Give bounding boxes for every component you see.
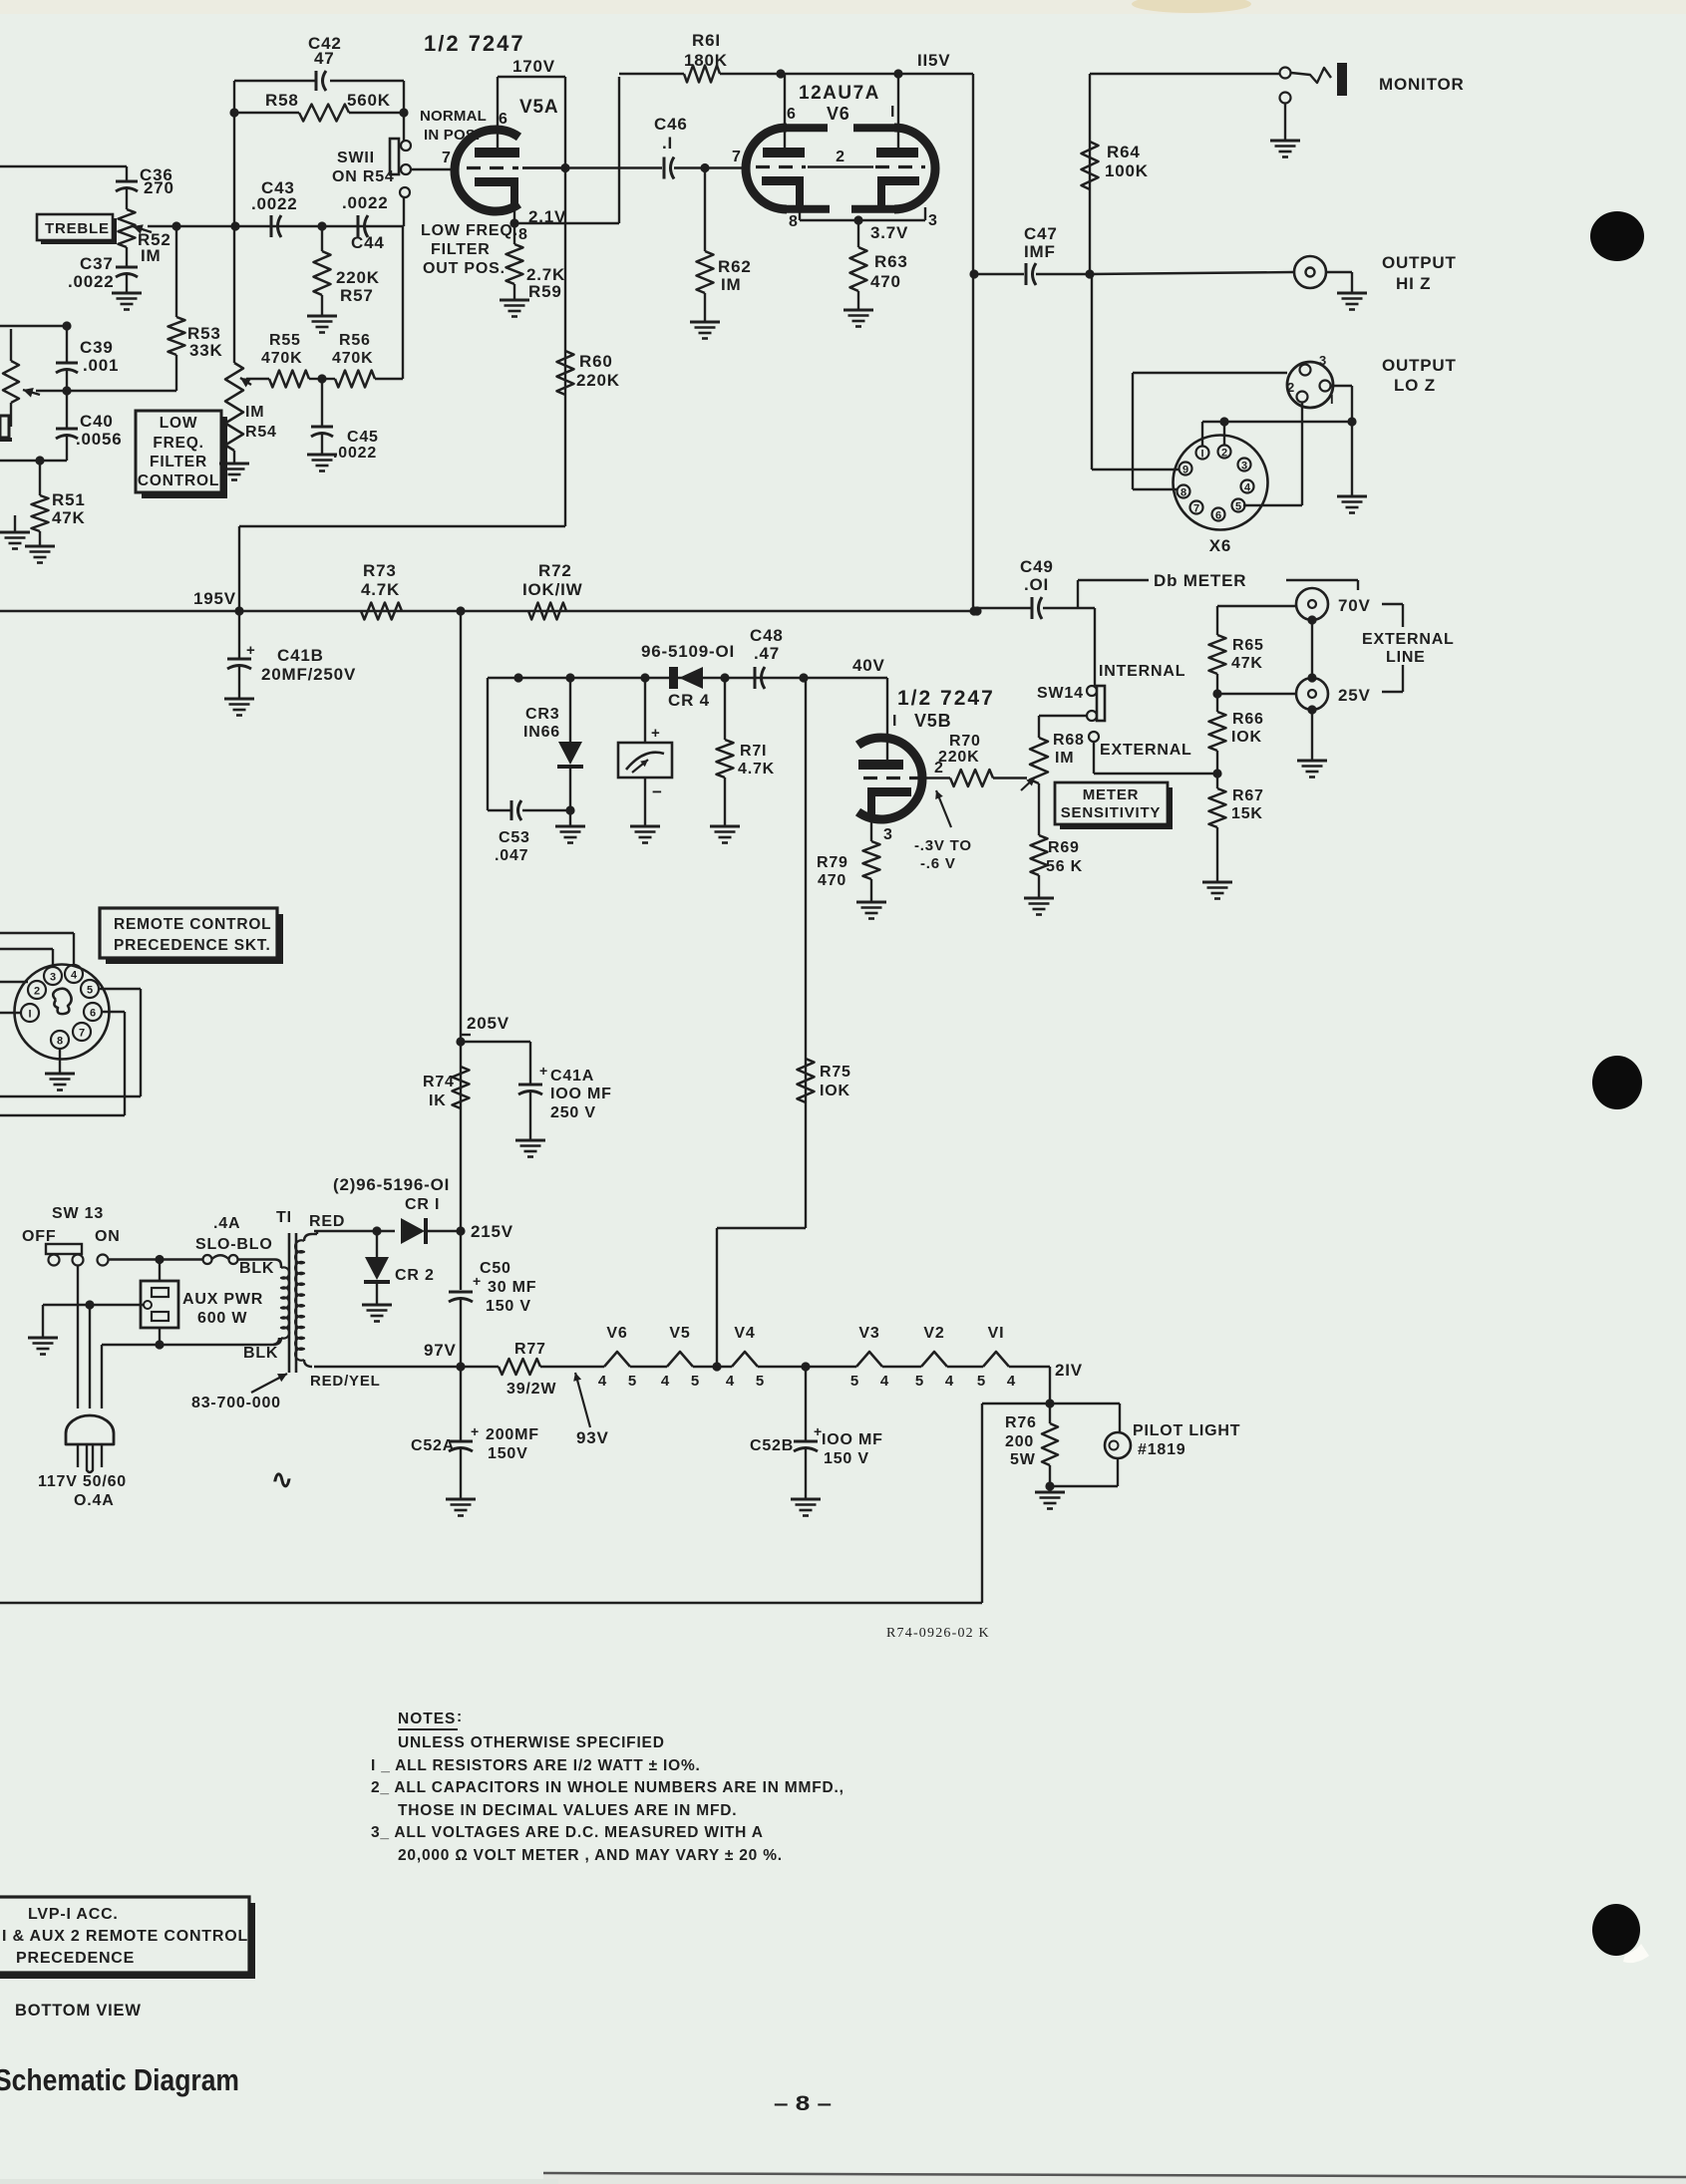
svg-text:8: 8	[57, 1036, 63, 1048]
svg-text:IOO MF: IOO MF	[550, 1086, 612, 1102]
svg-text:IM: IM	[721, 275, 741, 294]
svg-text:93V: 93V	[576, 1428, 609, 1447]
svg-text:6: 6	[499, 111, 508, 128]
svg-text:-.6 V: -.6 V	[920, 855, 956, 872]
svg-text:250 V: 250 V	[550, 1104, 596, 1121]
svg-text:4: 4	[1244, 482, 1251, 494]
svg-text:I: I	[892, 713, 897, 730]
svg-text:200MF: 200MF	[486, 1426, 539, 1443]
svg-text:I: I	[28, 1009, 31, 1021]
svg-text:METER: METER	[1083, 786, 1140, 803]
svg-text:+: +	[814, 1423, 822, 1439]
svg-text:600 W: 600 W	[197, 1310, 247, 1327]
svg-text:25V: 25V	[1338, 686, 1371, 705]
svg-text:33K: 33K	[189, 341, 223, 360]
svg-text:5: 5	[756, 1373, 764, 1390]
svg-text:180K: 180K	[684, 51, 728, 70]
svg-text:3: 3	[1241, 461, 1247, 472]
svg-text:IM: IM	[1055, 750, 1074, 767]
svg-text:150 V: 150 V	[486, 1298, 531, 1315]
svg-text:R72: R72	[538, 561, 572, 580]
svg-text:7: 7	[79, 1028, 85, 1040]
svg-text:TREBLE: TREBLE	[45, 220, 110, 237]
svg-text:2IV: 2IV	[1055, 1361, 1083, 1380]
svg-text:97V: 97V	[424, 1341, 457, 1360]
svg-text:.I: .I	[662, 134, 673, 153]
svg-text:.0022: .0022	[251, 194, 298, 213]
svg-text:SW 13: SW 13	[52, 1205, 104, 1222]
svg-text:EXTERNAL: EXTERNAL	[1362, 631, 1455, 648]
svg-text:OUTPUT: OUTPUT	[1382, 356, 1457, 375]
svg-text:2: 2	[1287, 380, 1294, 395]
svg-text:47K: 47K	[1231, 655, 1263, 672]
svg-text:47: 47	[314, 49, 335, 68]
svg-text:R79: R79	[817, 854, 848, 871]
svg-text:C52B: C52B	[750, 1437, 794, 1454]
svg-text:OUTPUT: OUTPUT	[1382, 253, 1457, 272]
svg-text:220K: 220K	[938, 749, 979, 766]
svg-text:R65: R65	[1232, 637, 1264, 654]
svg-text:V4: V4	[734, 1325, 755, 1342]
svg-text:HI Z: HI Z	[1396, 274, 1431, 293]
svg-text:IOO MF: IOO MF	[822, 1431, 883, 1448]
svg-text:220K: 220K	[336, 268, 380, 287]
svg-text:MONITOR: MONITOR	[1379, 75, 1465, 94]
svg-text:CR 2: CR 2	[395, 1267, 435, 1284]
svg-text:200: 200	[1005, 1433, 1034, 1450]
svg-text:+: +	[651, 725, 660, 742]
svg-text:PRECEDENCE: PRECEDENCE	[16, 1950, 135, 1967]
svg-text:C37: C37	[80, 254, 114, 273]
svg-text:V5B: V5B	[914, 711, 951, 731]
svg-text:IOK: IOK	[820, 1083, 850, 1099]
svg-text:I: I	[890, 104, 895, 121]
svg-text:R55: R55	[269, 332, 301, 349]
svg-text:470: 470	[818, 872, 846, 889]
svg-text:96-5109-OI: 96-5109-OI	[641, 642, 735, 661]
svg-text:R51: R51	[52, 490, 86, 509]
svg-text:3_ ALL VOLTAGES ARE D.C. MEAS: 3_ ALL VOLTAGES ARE D.C. MEASURED WITH A	[371, 1824, 764, 1841]
svg-text:RED: RED	[309, 1213, 345, 1230]
svg-text:560K: 560K	[347, 91, 391, 110]
svg-text:270: 270	[144, 178, 174, 197]
svg-text:5: 5	[691, 1373, 699, 1390]
svg-text:5: 5	[850, 1373, 858, 1390]
svg-text:R57: R57	[340, 286, 374, 305]
svg-text:R76: R76	[1005, 1414, 1037, 1431]
svg-text:3: 3	[883, 826, 893, 843]
svg-text:CR3: CR3	[525, 706, 559, 723]
svg-text:5: 5	[1235, 501, 1241, 513]
svg-text:2: 2	[34, 986, 40, 998]
svg-text:150 V: 150 V	[824, 1450, 869, 1467]
svg-text:195V: 195V	[193, 589, 236, 608]
svg-text:C41B: C41B	[277, 646, 324, 665]
svg-text:R60: R60	[579, 352, 613, 371]
svg-text:IN66: IN66	[523, 724, 560, 741]
svg-text:4: 4	[598, 1373, 607, 1390]
svg-text:7: 7	[442, 150, 452, 166]
svg-text:C47: C47	[1024, 224, 1058, 243]
svg-text:4: 4	[661, 1373, 670, 1390]
svg-text:BLK: BLK	[239, 1260, 274, 1277]
svg-text:20MF/250V: 20MF/250V	[261, 665, 356, 684]
svg-text:R68: R68	[1053, 732, 1085, 749]
svg-text:OUT POS.: OUT POS.	[423, 260, 506, 277]
svg-text:3: 3	[928, 212, 938, 229]
svg-text:100K: 100K	[1105, 161, 1149, 180]
svg-text:3: 3	[1319, 353, 1326, 368]
svg-text:REMOTE CONTROL: REMOTE CONTROL	[114, 916, 271, 933]
svg-text:470K: 470K	[332, 350, 373, 367]
svg-text:IOK: IOK	[1231, 729, 1262, 746]
svg-text:7: 7	[732, 149, 742, 165]
svg-text:2: 2	[836, 149, 845, 165]
svg-text:OFF: OFF	[22, 1228, 56, 1245]
svg-text:8: 8	[789, 213, 799, 230]
svg-text:NORMAL: NORMAL	[420, 108, 487, 125]
svg-text:83-700-000: 83-700-000	[191, 1395, 281, 1411]
svg-text:+: +	[471, 1423, 479, 1439]
svg-text:LINE: LINE	[1386, 649, 1426, 666]
svg-text:I & AUX 2 REMOTE CONTROL: I & AUX 2 REMOTE CONTROL	[2, 1928, 248, 1945]
svg-text:Db METER: Db METER	[1154, 571, 1246, 590]
svg-text:6: 6	[787, 106, 797, 123]
svg-text:R64: R64	[1107, 143, 1141, 161]
svg-text:BOTTOM VIEW: BOTTOM VIEW	[15, 2002, 142, 2020]
svg-text:R56: R56	[339, 332, 371, 349]
svg-text:R66: R66	[1232, 711, 1264, 728]
svg-text:.47: .47	[754, 644, 780, 663]
svg-text:R74-0926-02 K: R74-0926-02 K	[886, 1626, 990, 1641]
svg-text:15K: 15K	[1231, 805, 1263, 822]
svg-text:7: 7	[1193, 503, 1199, 515]
svg-text:VI: VI	[988, 1325, 1005, 1342]
svg-text:.4A: .4A	[213, 1215, 240, 1232]
svg-text:R74: R74	[423, 1074, 455, 1091]
svg-text:R7I: R7I	[740, 743, 767, 760]
svg-text:SW14: SW14	[1037, 685, 1084, 702]
svg-text:40V: 40V	[852, 656, 885, 675]
svg-text:I _ ALL RESISTORS ARE I/2 WAT: I _ ALL RESISTORS ARE I/2 WATT ± IO%.	[371, 1757, 701, 1774]
svg-text:CR 4: CR 4	[668, 691, 710, 710]
svg-text:LOW FREQ.: LOW FREQ.	[421, 222, 518, 239]
svg-text:C49: C49	[1020, 557, 1054, 576]
svg-text:R62: R62	[718, 257, 752, 276]
svg-text:C46: C46	[654, 115, 688, 134]
svg-text:AUX PWR: AUX PWR	[182, 1291, 263, 1308]
svg-text:4: 4	[1007, 1373, 1016, 1390]
svg-text:EXTERNAL: EXTERNAL	[1100, 742, 1192, 759]
svg-text:C40: C40	[80, 412, 114, 431]
svg-text:.0056: .0056	[76, 430, 123, 449]
svg-text:150V: 150V	[488, 1445, 528, 1462]
svg-text:V6: V6	[606, 1325, 627, 1342]
svg-text:+: +	[539, 1063, 547, 1079]
svg-text:IMF: IMF	[1024, 242, 1056, 261]
svg-text:ON R54: ON R54	[332, 168, 395, 185]
svg-text:FREQ.: FREQ.	[153, 435, 203, 452]
svg-text:215V: 215V	[471, 1222, 513, 1241]
svg-text:R6I: R6I	[692, 31, 721, 50]
svg-text:70V: 70V	[1338, 596, 1371, 615]
svg-text:X6: X6	[1209, 536, 1231, 555]
svg-text:UNLESS OTHERWISE SPECIFIED: UNLESS OTHERWISE SPECIFIED	[398, 1734, 665, 1751]
svg-text:5: 5	[915, 1373, 923, 1390]
svg-text:C50: C50	[480, 1260, 511, 1277]
svg-text:I: I	[1200, 449, 1203, 461]
svg-text:39/2W: 39/2W	[506, 1381, 556, 1398]
svg-text:470: 470	[870, 272, 901, 291]
svg-text:3: 3	[50, 972, 56, 984]
svg-text:– 8 –: – 8 –	[774, 2092, 832, 2115]
svg-text:V5: V5	[669, 1325, 690, 1342]
svg-text:(2)96-5196-OI: (2)96-5196-OI	[333, 1175, 450, 1194]
svg-text:O.4A: O.4A	[74, 1492, 115, 1509]
svg-text:R73: R73	[363, 561, 397, 580]
svg-text:FILTER: FILTER	[150, 454, 207, 470]
svg-text:.0022: .0022	[342, 193, 389, 212]
svg-text:12AU7A: 12AU7A	[799, 83, 880, 104]
svg-text:220K: 220K	[576, 371, 620, 390]
svg-text:V5A: V5A	[519, 97, 558, 118]
svg-text:R77: R77	[514, 1341, 546, 1358]
svg-text:170V: 170V	[512, 57, 555, 76]
svg-text:.047: .047	[495, 847, 528, 864]
svg-text:TI: TI	[276, 1209, 292, 1226]
svg-text:PRECEDENCE SKT.: PRECEDENCE SKT.	[114, 937, 271, 954]
svg-text:205V: 205V	[467, 1014, 509, 1033]
svg-text:R70: R70	[949, 733, 981, 750]
svg-text:IK: IK	[429, 1092, 447, 1109]
svg-text:C45: C45	[347, 429, 379, 446]
svg-text:4.7K: 4.7K	[738, 761, 775, 778]
svg-text:470K: 470K	[261, 350, 302, 367]
svg-text:C52A: C52A	[411, 1437, 455, 1454]
svg-text:5: 5	[628, 1373, 636, 1390]
svg-text:CONTROL: CONTROL	[138, 472, 219, 489]
svg-text:47K: 47K	[52, 508, 86, 527]
svg-text:V2: V2	[923, 1325, 944, 1342]
svg-text:C41A: C41A	[550, 1068, 594, 1085]
svg-text:8: 8	[518, 226, 528, 243]
svg-text:-.3V TO: -.3V TO	[914, 837, 972, 854]
svg-text:5W: 5W	[1010, 1451, 1036, 1468]
svg-text:SENSITIVITY: SENSITIVITY	[1061, 804, 1162, 821]
svg-text:2: 2	[1221, 448, 1227, 460]
svg-text:.0022: .0022	[68, 272, 115, 291]
svg-text:C44: C44	[351, 233, 385, 252]
svg-text:4.7K: 4.7K	[361, 580, 400, 599]
svg-text:2_ ALL CAPACITORS IN WHOLE NU: 2_ ALL CAPACITORS IN WHOLE NUMBERS ARE I…	[371, 1779, 844, 1796]
svg-text:R54: R54	[245, 424, 277, 441]
svg-text:−: −	[652, 782, 662, 801]
svg-text:INTERNAL: INTERNAL	[1099, 663, 1185, 680]
svg-text:117V 50/60: 117V 50/60	[38, 1473, 127, 1490]
svg-text:THOSE IN DECIMAL VALUES ARE IN: THOSE IN DECIMAL VALUES ARE IN MFD.	[398, 1802, 737, 1819]
svg-text:NOTES: NOTES	[398, 1711, 456, 1727]
svg-text:3.7V: 3.7V	[870, 223, 908, 242]
svg-text:4: 4	[726, 1373, 735, 1390]
svg-text:C53: C53	[499, 829, 530, 846]
svg-text:PILOT LIGHT: PILOT LIGHT	[1133, 1422, 1240, 1439]
svg-text:R67: R67	[1232, 787, 1264, 804]
svg-text:R63: R63	[874, 252, 908, 271]
svg-text:LVP-I ACC.: LVP-I ACC.	[28, 1906, 119, 1923]
svg-text:∿: ∿	[271, 1464, 293, 1494]
svg-text:1/2 7247: 1/2 7247	[424, 31, 525, 56]
svg-text:56 K: 56 K	[1046, 858, 1083, 875]
svg-text::: :	[457, 1709, 462, 1725]
svg-text:30 MF: 30 MF	[488, 1279, 536, 1296]
svg-text:20,000 Ω VOLT METER , AND MAY: 20,000 Ω VOLT METER , AND MAY VARY ± 20 …	[398, 1847, 783, 1864]
svg-text:R69: R69	[1048, 839, 1080, 856]
svg-text:IOK/IW: IOK/IW	[522, 580, 583, 599]
svg-text:RED/YEL: RED/YEL	[310, 1373, 381, 1390]
svg-text:9: 9	[1182, 465, 1188, 476]
svg-text:5: 5	[977, 1373, 985, 1390]
svg-text:4: 4	[880, 1373, 889, 1390]
svg-text:+: +	[246, 642, 255, 659]
svg-text:.0022: .0022	[333, 445, 377, 462]
svg-text:8: 8	[1180, 487, 1186, 499]
svg-text:4: 4	[71, 970, 78, 982]
svg-text:SWII: SWII	[337, 150, 375, 166]
svg-text:.OI: .OI	[1024, 575, 1049, 594]
svg-text:C39: C39	[80, 338, 114, 357]
svg-text:R58: R58	[265, 91, 299, 110]
svg-text:4: 4	[945, 1373, 954, 1390]
svg-text:R59: R59	[528, 282, 562, 301]
svg-text:LOW: LOW	[160, 415, 198, 432]
svg-text:BLK: BLK	[243, 1345, 278, 1362]
svg-text:Schematic Diagram: Schematic Diagram	[0, 2062, 239, 2097]
svg-text:C48: C48	[750, 626, 784, 645]
svg-text:V6: V6	[827, 104, 850, 124]
svg-text:6: 6	[1215, 510, 1221, 522]
svg-text:IM: IM	[141, 246, 161, 265]
svg-text:V3: V3	[858, 1325, 879, 1342]
svg-text:5: 5	[87, 985, 93, 997]
svg-text:.001: .001	[83, 356, 119, 375]
svg-text:ON: ON	[95, 1228, 121, 1245]
svg-text:IM: IM	[245, 404, 264, 421]
svg-text:I: I	[1330, 392, 1334, 407]
svg-text:SLO-BLO: SLO-BLO	[195, 1236, 273, 1253]
svg-text:#1819: #1819	[1138, 1441, 1186, 1458]
svg-text:II5V: II5V	[917, 51, 950, 70]
svg-text:R75: R75	[820, 1064, 851, 1081]
svg-text:6: 6	[90, 1008, 96, 1020]
svg-text:LO Z: LO Z	[1394, 376, 1436, 395]
svg-text:1/2 7247: 1/2 7247	[897, 687, 995, 710]
svg-text:2.1V: 2.1V	[528, 207, 566, 226]
svg-text:FILTER: FILTER	[431, 241, 491, 258]
svg-text:CR I: CR I	[405, 1196, 440, 1213]
